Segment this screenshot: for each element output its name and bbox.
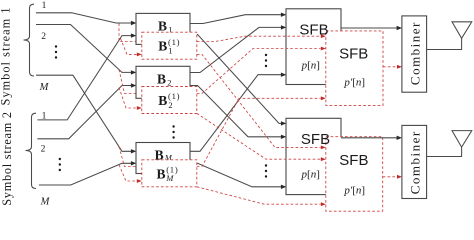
red wire B1r out1 to SFBrtop in1 (197, 36, 321, 41)
dots B column (172, 125, 174, 138)
red arrow SFBrbot in2 (321, 157, 326, 161)
label Combiner top (407, 21, 422, 85)
svg-text:Combiner: Combiner (407, 130, 422, 194)
svg-text:Symbol stream 2: Symbol stream 2 (0, 111, 14, 206)
box Combiner bottom (402, 125, 427, 198)
svg-text:SFB: SFB (339, 152, 368, 169)
wire B2 out1 to SFBtop in2 (190, 25, 286, 72)
svg-text:p′[n]: p′[n] (343, 76, 365, 88)
wire B2 out2 to SFBbot in2 (190, 86, 286, 140)
dots SFB bottom inputs (265, 164, 267, 177)
brace stream 2 (26, 113, 37, 188)
wire s2-1 to B1 in2 (37, 33, 136, 120)
wire B1 out2 to SFBbot in1 (190, 35, 286, 126)
wire s2-M to BM in2 (39, 161, 136, 185)
red arrow SFBrtop in2 (321, 47, 326, 51)
wire Combiner top to antenna top (427, 38, 462, 49)
label p[n] bottom (301, 169, 320, 181)
red wire SFBrtop out to Combiner top (383, 65, 402, 69)
box B1r (red dashed) (142, 32, 197, 59)
label B1r (158, 37, 180, 56)
label Combiner bottom (407, 130, 422, 194)
dots SFB top inputs (265, 54, 267, 67)
red branch to B2r in1 (119, 70, 137, 94)
label Symbol stream 2 (0, 111, 14, 206)
red arrow BMr in1 (137, 165, 142, 169)
box B2 (136, 66, 190, 98)
svg-text:M: M (40, 197, 51, 208)
red arrow B2r in1 (137, 92, 142, 96)
box SFB bottom (286, 118, 341, 194)
box B2r (red dashed) (142, 87, 197, 114)
dots stream 1 (55, 45, 57, 58)
red branch to B1r in1 (119, 24, 137, 42)
label p'[n] bottom (343, 184, 365, 196)
antenna bottom (452, 131, 472, 148)
box SFB top (286, 9, 341, 85)
label BMr (157, 164, 179, 183)
label M (stream 2) (40, 197, 51, 208)
label SFBr bottom (339, 152, 368, 169)
svg-text:Symbol stream 1: Symbol stream 1 (0, 6, 13, 105)
box SFBr top (red dashed) (326, 31, 383, 106)
label Symbol stream 1 (0, 6, 13, 105)
wire s2-2 to B2 in2 (37, 83, 136, 139)
wire BM out1 to SFBtop in3 (190, 73, 286, 152)
label M (stream 1) (39, 82, 50, 93)
wire BM out2 to SFBbot in3 (190, 163, 286, 189)
svg-text:2: 2 (41, 145, 46, 155)
svg-text:2: 2 (41, 32, 46, 42)
red branch to BMr in1 (119, 147, 137, 167)
red wire B2r out1 to SFBrtop in2 (197, 49, 321, 94)
label B2r (158, 91, 180, 110)
wire s1-1 to B1 in1 (36, 13, 136, 25)
svg-text:M: M (39, 82, 50, 93)
red arrow SFBrtop in3 (321, 96, 326, 100)
wire Combiner bottom to antenna bottom (427, 147, 462, 156)
wire B1 out1 to SFBtop in1 (190, 13, 286, 24)
label SFB bottom (301, 131, 330, 148)
label B2 (157, 71, 172, 87)
wire SFBtop out to Combiner top (341, 26, 402, 30)
wire SFBbot out to Combiner bottom (341, 136, 402, 140)
dots stream 2 (59, 158, 61, 171)
label p[n] top (301, 59, 320, 71)
red wire BMr out2 to SFBrbot in3 (197, 187, 321, 204)
svg-text:p′[n]: p′[n] (343, 184, 365, 196)
box Combiner top (402, 16, 427, 92)
red wire B2r out2 to SFBrbot in2 (197, 113, 321, 159)
red arrow B2r in2 (137, 106, 142, 110)
red wire B1r out2 to SFBrbot in1 (197, 54, 321, 147)
label 1 (stream 1) (42, 1, 47, 11)
svg-text:1: 1 (42, 1, 47, 11)
label 1 (stream 2) (42, 112, 47, 122)
red arrow BMr in2 (137, 179, 142, 183)
red wire SFBrbot out to Combiner bottom (383, 175, 402, 179)
svg-text:Combiner: Combiner (407, 21, 422, 85)
red branch to B1r in2 (121, 39, 137, 55)
svg-text:p[n]: p[n] (301, 169, 320, 181)
box BMr (red dashed) (142, 160, 197, 187)
label 2 (stream 1) (41, 32, 46, 42)
brace stream 1 (24, 4, 35, 76)
wire s1-M to BM in1 (36, 75, 136, 153)
label SFB top (299, 21, 328, 38)
red arrow B1r in1 (137, 40, 142, 44)
red arrow SFBrbot in1 (321, 146, 326, 150)
label p'[n] top (343, 76, 365, 88)
label BM (155, 147, 173, 162)
wire s1-2 to B2 in1 (36, 25, 136, 75)
svg-text:SFB: SFB (339, 46, 368, 63)
red arrow SFBrtop in1 (321, 34, 326, 38)
red arrow B1r in2 (137, 53, 142, 57)
red arrow SFBrbot in3 (321, 202, 326, 206)
box BM (136, 143, 190, 174)
box B1 (136, 13, 190, 44)
red branch to B2r in2 (119, 88, 137, 109)
svg-text:p[n]: p[n] (301, 59, 320, 71)
label SFBr top (339, 46, 368, 63)
box SFBr bottom (red dashed) (326, 137, 383, 212)
antenna top (452, 22, 472, 39)
svg-text:SFB: SFB (301, 131, 330, 148)
red branch to BMr in2 (119, 165, 137, 181)
label B1 (158, 18, 173, 34)
red wire BMr out1 to SFBrtop in3 (197, 98, 321, 166)
label 2 (stream 2) (41, 145, 46, 155)
